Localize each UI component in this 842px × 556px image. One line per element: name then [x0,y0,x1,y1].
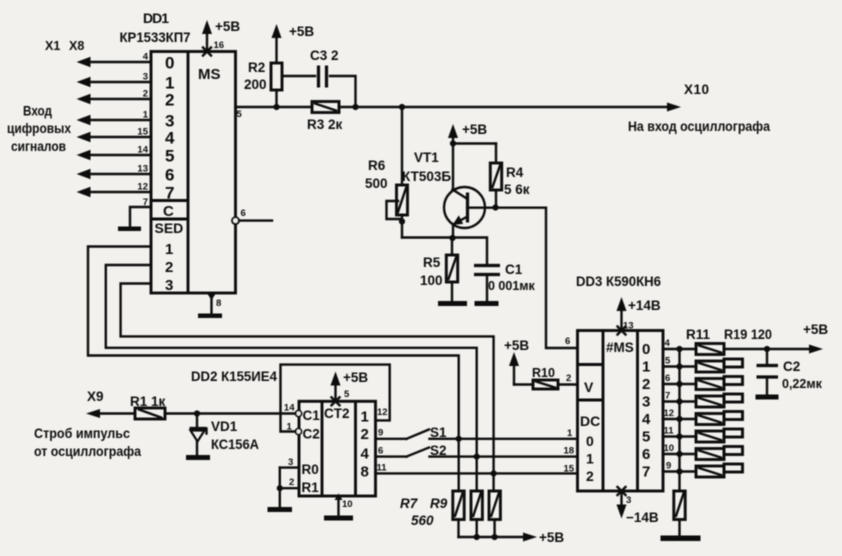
svg-text:R9: R9 [430,496,448,511]
wire input row 6 pin 13 [77,164,152,180]
pin tick at DD2 pin 5 [332,397,340,405]
svg-text:4: 4 [361,446,370,463]
pin tick at DD3 pin 3 [618,487,626,495]
zener diode VD1 [190,414,260,456]
svg-text:6: 6 [665,373,670,384]
junction R4 bottom / VT1 base [492,204,498,210]
svg-text:C2: C2 [303,427,320,442]
svg-text:1: 1 [642,359,650,376]
svg-text:DD1: DD1 [143,10,169,26]
junction SED1 net to DC0 [456,436,462,442]
ground at C2 [756,395,779,400]
svg-text:4: 4 [143,52,149,63]
power -14V at DD3 pin 3 [617,491,659,525]
wire DD3 pin 9 row [663,461,696,472]
svg-text:8: 8 [361,464,369,481]
svg-text:5: 5 [344,389,350,400]
svg-text:C1: C1 [303,408,321,423]
resistor R9 [489,491,500,537]
junction bus row 4 [676,346,682,352]
junction R3 right [352,104,358,110]
svg-text:3: 3 [165,277,173,294]
svg-text:12: 12 [664,408,675,419]
wire input row 7 pin 12 [77,182,152,198]
svg-text:R6: R6 [368,158,386,173]
wire DD2 pin 8 output 4 [376,446,407,457]
DD2 input circle C2 [296,429,302,435]
wire DD3 pin 10 row [663,443,696,454]
svg-text:1: 1 [361,409,369,426]
wire input row 1 pin 3 [77,72,152,88]
resistor R8 [471,491,482,537]
svg-text:V: V [584,379,594,395]
svg-text:0: 0 [642,341,650,358]
ground at VD1 [186,455,210,460]
svg-text:C2: C2 [783,359,800,374]
junction bus row 7 [676,398,682,404]
svg-text:R0: R0 [302,462,319,477]
svg-text:2: 2 [165,91,174,110]
svg-text:SED: SED [155,220,184,236]
svg-text:7: 7 [642,464,650,481]
power +5V at R10 [504,338,529,385]
wire DD3 pin 7 row [663,391,696,402]
wire DD1 pin 7 C input [130,197,151,226]
svg-text:2: 2 [165,259,173,276]
svg-text:18: 18 [564,446,575,457]
svg-text:0 001мк: 0 001мк [488,279,536,293]
svg-text:0: 0 [165,54,174,73]
switch S1 [407,425,448,440]
resistor R3 [307,102,343,133]
svg-text:2: 2 [361,426,369,443]
svg-text:цифровых: цифровых [7,121,71,136]
svg-text:КР1533КП7: КР1533КП7 [120,29,191,45]
svg-text:R19 120: R19 120 [724,327,772,342]
svg-text:+5В: +5В [215,19,240,34]
wire DD3 pin 4 row [663,338,696,349]
resistor R2 [244,33,282,107]
junction R1 pin [277,485,283,491]
svg-text:КС156А: КС156А [211,437,259,452]
DD2 input circle C1 [296,411,302,417]
svg-text:3: 3 [288,457,293,468]
resistor R10 [514,366,578,389]
wire net SED2 to DC1 [106,265,477,491]
wire ladder common bus [678,349,680,491]
svg-text:DC: DC [580,413,600,429]
junction VD1 tap [194,410,200,416]
svg-text:R10: R10 [532,366,555,380]
ground at R5 [438,301,467,306]
svg-text:6: 6 [165,166,174,185]
resistor R11 [696,344,724,355]
svg-text:1: 1 [287,422,293,433]
power +5V at VT1 collector [448,122,487,190]
svg-text:5: 5 [642,429,650,446]
junction VT1 emitter node [449,235,455,241]
resistor R5 [420,238,458,301]
svg-text:R1: R1 [302,480,320,495]
resistor R19 [674,491,685,536]
counter DD2 body [299,401,376,496]
ground at C1 [475,301,499,306]
wire DD2 pin 10 to ground [335,494,353,516]
junction R6 branch [399,104,405,110]
wire input row 4 pin 15 [77,127,152,143]
wire DD2 pin 2 R1 [280,477,299,488]
wire input row 0 pin 4 [77,52,152,68]
junction SED3 net to DC2 [491,470,497,476]
svg-text:7: 7 [665,391,670,402]
svg-text:16: 16 [214,40,225,51]
svg-text:6: 6 [378,446,383,457]
svg-text:+14В: +14В [628,298,661,313]
svg-text:от осциллографа: от осциллографа [34,443,141,459]
svg-text:560: 560 [411,513,434,528]
svg-text:X9: X9 [87,389,104,404]
svg-text:S2: S2 [430,443,447,458]
junction R6 loop [399,218,405,224]
svg-text:5 6к: 5 6к [504,182,530,197]
analog switch DD3 body [578,331,664,492]
junction bus row 10 [676,451,682,457]
ground at DD2 pin 10 [324,516,353,521]
svg-text:Строб импульс: Строб импульс [34,425,130,441]
junction R9 bottom [492,534,498,540]
svg-text:R7: R7 [400,496,419,511]
svg-text:8: 8 [216,298,221,309]
svg-text:MS: MS [198,66,221,83]
ground at DD1 pin 8 [198,314,222,319]
note: strobe pulse from oscilloscope [34,425,141,459]
svg-text:200: 200 [244,77,267,92]
ground at DD1 pin 7 [118,227,141,232]
wire DD3 pin 12 row [663,408,696,419]
junction bus row 6 [676,381,682,387]
wire net SED3 to DC2 [121,284,494,492]
wire net SED1 to DC0 [88,247,459,492]
svg-text:0: 0 [586,433,594,449]
junction R2 bottom [273,104,279,110]
ground at DD2 reset pins [268,507,293,512]
svg-text:10: 10 [664,443,675,454]
svg-text:DD3 К590КН6: DD3 К590КН6 [576,273,661,289]
junction bus row 12 [676,416,682,422]
transistor VT1 [444,187,496,238]
svg-text:R1 1к: R1 1к [130,394,166,409]
svg-text:+5В: +5В [462,122,487,137]
svg-text:2: 2 [289,477,294,488]
capacitor C3 [282,48,356,107]
svg-text:15: 15 [137,127,148,138]
svg-text:+5В: +5В [803,322,828,337]
junction C2 tap [764,346,770,352]
resistor R12 [696,359,743,372]
wire DC0 row to DD3 pin 1 [430,428,578,439]
wire ladder output to +5V [724,322,828,354]
svg-text:1: 1 [567,428,573,439]
wire main output to X10 [339,103,681,112]
svg-text:C1: C1 [505,262,523,277]
svg-text:11: 11 [664,426,675,437]
svg-text:+5В: +5В [504,338,529,353]
svg-text:+5В: +5В [343,370,368,385]
capacitor C1 [474,262,536,301]
svg-text:100: 100 [420,273,443,288]
pin tick at DD1 pin 16 [203,48,211,56]
pin tick at DD3 pin 13 [618,327,626,335]
power +5V above R2 [272,24,315,39]
svg-text:2: 2 [566,373,571,384]
svg-text:R3 2к: R3 2к [307,117,343,132]
resistor R13 [696,377,743,390]
svg-text:14: 14 [284,403,295,414]
svg-text:7: 7 [165,184,174,203]
wire input row 2 pin 2 [77,89,152,105]
wire DC1 row to DD3 pin 18 [430,446,578,457]
resistor R4 [453,144,530,208]
junction R8 bottom [474,534,480,540]
svg-text:4: 4 [642,411,651,428]
junction bus row 11 [676,433,682,439]
svg-text:X8: X8 [69,39,84,53]
svg-text:КТ503Б: КТ503Б [402,169,451,184]
svg-text:14: 14 [137,145,148,156]
resistor R15 [696,412,743,425]
svg-text:#MS: #MS [606,340,634,355]
note: digital inputs text [7,104,71,155]
svg-text:7: 7 [143,197,148,208]
wire DD3 pin 11 row [663,426,696,437]
svg-text:5: 5 [165,147,174,166]
wire pullup bus to +5V [459,530,565,545]
capacitor C2 [757,349,823,395]
svg-text:DD2 К155ИЕ4: DD2 К155ИЕ4 [191,368,277,384]
svg-text:C3 2: C3 2 [310,48,339,63]
wire DD2 pin 9 output 2 [376,428,407,439]
svg-text:500: 500 [365,176,388,191]
svg-text:9: 9 [378,428,383,439]
connector X9 arrow [86,389,135,418]
svg-text:15: 15 [564,464,575,475]
svg-text:+5В: +5В [289,24,314,39]
wire DD2 pin 14 from R1 [165,403,296,414]
svg-text:сигналов: сигналов [11,139,66,154]
wire DD2 pin 3 R0 [280,457,299,468]
wire VT1 base to DD3 pin 6 [496,208,578,348]
svg-text:4: 4 [165,129,175,148]
wire DD1 pin 5 output [236,107,313,120]
svg-text:VD1: VD1 [211,419,238,434]
multiplexer DD1 body [151,52,236,295]
wire DD3 pin 6 output row [663,373,696,384]
resistor R7 [453,491,464,537]
svg-text:R4: R4 [506,165,524,180]
power +14V at DD3 pin 13 [617,297,661,332]
svg-text:10: 10 [342,499,353,510]
svg-text:2: 2 [143,89,148,100]
wire input row 5 pin 14 [77,145,152,161]
svg-text:1: 1 [586,451,594,467]
svg-text:Вход: Вход [23,104,52,119]
svg-text:2: 2 [642,376,650,393]
svg-text:X1: X1 [45,39,60,53]
resistor R16 [696,429,743,442]
svg-text:−14В: −14В [626,510,659,525]
svg-text:1: 1 [143,110,149,121]
svg-text:5: 5 [237,109,243,120]
svg-text:R5: R5 [423,255,441,270]
svg-text:12: 12 [377,407,388,418]
svg-text:3: 3 [626,495,631,506]
junction SED2 net to DC1 [474,454,480,460]
wire feedback DD2 pin 12 to C2 [281,365,390,433]
wire R0 R1 to ground [279,468,281,507]
svg-text:1: 1 [165,241,173,258]
svg-text:12: 12 [137,182,148,193]
svg-text:13: 13 [137,164,148,175]
wire emitter node [402,238,487,265]
svg-text:S1: S1 [430,425,447,440]
svg-text:CT2: CT2 [324,406,350,421]
svg-text:11: 11 [377,463,388,474]
svg-text:4: 4 [665,338,671,349]
svg-text:R2: R2 [248,60,265,75]
svg-text:C: C [163,203,174,220]
svg-text:0,22мк: 0,22мк [782,377,823,391]
ground at R19 [661,536,701,542]
DD1 pin 6 strobe output with bubble [232,208,272,224]
svg-text:2: 2 [586,468,594,484]
svg-text:6: 6 [241,208,246,219]
svg-text:X10: X10 [684,82,709,97]
resistor R17 [696,447,743,460]
svg-text:R11: R11 [686,327,711,342]
junction R4 branch [450,140,456,146]
svg-text:9: 9 [666,461,671,472]
switch S2 [407,443,447,458]
svg-text:3: 3 [642,394,650,411]
junction bus row 9 [676,468,682,474]
power +5V at DD2 pin 5 [331,370,369,401]
resistor R14 [696,394,743,407]
power +5V at DD1 pin 16 [202,19,240,52]
junction bus row 5 [676,363,682,369]
svg-text:5: 5 [665,356,671,367]
svg-text:VT1: VT1 [414,150,439,165]
wire input row 3 pin 1 [77,110,152,126]
wire DC2 row DD2 pin 11 to DD3 pin 15 [376,464,578,475]
svg-text:+5В: +5В [539,530,564,545]
wire DD1 pin 8 to ground [207,293,222,314]
wire DD3 pin 5 row [663,356,696,367]
svg-text:На вход осциллографа: На вход осциллографа [628,119,770,134]
resistor R6 (trimmer wired as rheostat) [365,107,408,238]
svg-text:6: 6 [565,336,570,347]
resistor R18 [696,464,743,477]
svg-text:6: 6 [642,446,650,463]
resistor R1 [130,394,166,419]
svg-text:3: 3 [143,72,148,83]
